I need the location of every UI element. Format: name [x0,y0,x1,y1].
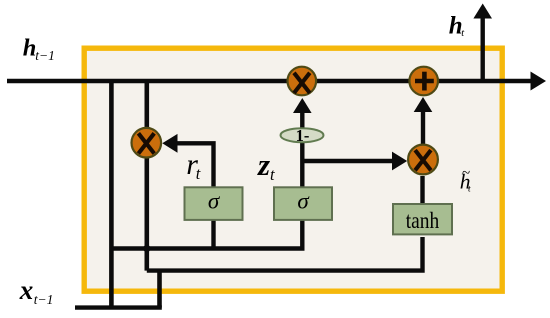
arrowhead: h_t up [473,4,492,19]
junction dot [142,243,152,253]
svg-text:t−1: t−1 [34,292,54,307]
wire: sigma input rail [111,220,302,249]
node: 1- ellipse [281,128,324,142]
wire: tanh rail [147,237,423,271]
wire: x_t input line [75,305,162,309]
wire: sigma2 output up through 1- ellipse [300,113,304,187]
box: sigma z [274,187,332,220]
svg-text:t−1: t−1 [35,48,55,63]
arrowhead: into plus [414,97,433,112]
svg-text:~: ~ [462,166,470,182]
arrowhead: into X on main line [293,98,312,113]
wire: x input riser [157,271,162,308]
wire: main h line [7,79,533,83]
arrowhead: into h-tilde X [392,152,407,171]
arrowhead: main line right [531,72,547,91]
svg-text:σ: σ [297,188,310,213]
svg-text:σ: σ [208,188,221,213]
svg-text:t: t [461,28,465,39]
svg-text:t: t [468,185,471,195]
gate: X circle on main line (z gate) [288,67,317,96]
wire: h_t output vertical [481,17,485,81]
wire: vertical through r-gate X circle down to tanh rail [145,81,150,271]
wire: left vertical from h line down to x line [109,81,114,308]
wire: sigma1 output to r-gate X [176,143,214,187]
box: tanh [393,204,452,234]
svg-text:1-: 1- [296,126,310,145]
wire: branch to h-tilde X gate [302,159,393,163]
cell body (beige box with gold border) [84,48,502,291]
svg-text:z: z [257,147,270,182]
gate: h-tilde X circle [408,145,438,175]
gate: r X circle [132,128,162,158]
wire: h-tilde X up to plus [421,112,425,144]
gate: plus circle [409,67,438,96]
arrowhead: into r-gate X [162,134,177,153]
svg-text:tanh: tanh [406,208,440,233]
wire: tanh output up to h-tilde X [420,176,424,204]
svg-text:t: t [270,165,275,184]
box: sigma r [185,187,243,220]
svg-text:t: t [196,164,201,183]
svg-text:x: x [19,275,34,305]
wire: sigma1 input stub [211,220,215,249]
